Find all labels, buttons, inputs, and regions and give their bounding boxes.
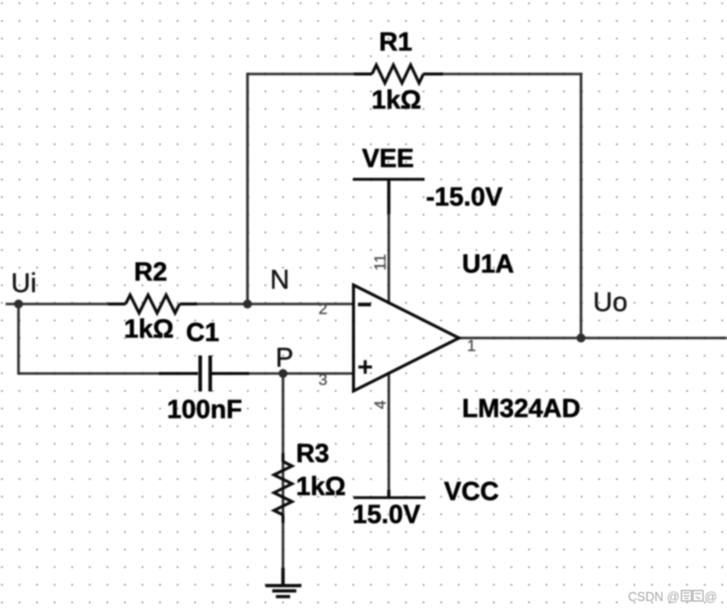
svg-text:11: 11 bbox=[372, 254, 389, 271]
svg-text:100nF: 100nF bbox=[167, 394, 242, 424]
svg-text:@: @ bbox=[705, 590, 718, 604]
svg-text:VEE: VEE bbox=[362, 143, 414, 173]
svg-text:P: P bbox=[276, 343, 294, 373]
svg-text:Ui: Ui bbox=[11, 268, 37, 298]
svg-text:1kΩ: 1kΩ bbox=[372, 85, 422, 115]
svg-text:VCC: VCC bbox=[444, 476, 499, 506]
svg-text:-15.0V: -15.0V bbox=[426, 182, 503, 212]
svg-text:Uo: Uo bbox=[593, 287, 628, 317]
svg-text:1: 1 bbox=[467, 338, 476, 355]
svg-text:15.0V: 15.0V bbox=[353, 499, 422, 529]
svg-text:4: 4 bbox=[373, 400, 390, 409]
svg-text:CSDN @: CSDN @ bbox=[628, 590, 680, 604]
svg-text:N: N bbox=[270, 265, 290, 295]
svg-text:1kΩ: 1kΩ bbox=[124, 314, 174, 344]
svg-text:C1: C1 bbox=[186, 317, 219, 347]
svg-text:R1: R1 bbox=[379, 27, 412, 57]
svg-text:LM324AD: LM324AD bbox=[462, 393, 580, 423]
svg-text:1kΩ: 1kΩ bbox=[296, 471, 346, 501]
svg-text:2: 2 bbox=[319, 301, 328, 318]
svg-text:U1A: U1A bbox=[462, 249, 514, 279]
svg-text:3: 3 bbox=[319, 372, 328, 389]
svg-text:R3: R3 bbox=[296, 438, 329, 468]
svg-text:R2: R2 bbox=[134, 257, 167, 287]
